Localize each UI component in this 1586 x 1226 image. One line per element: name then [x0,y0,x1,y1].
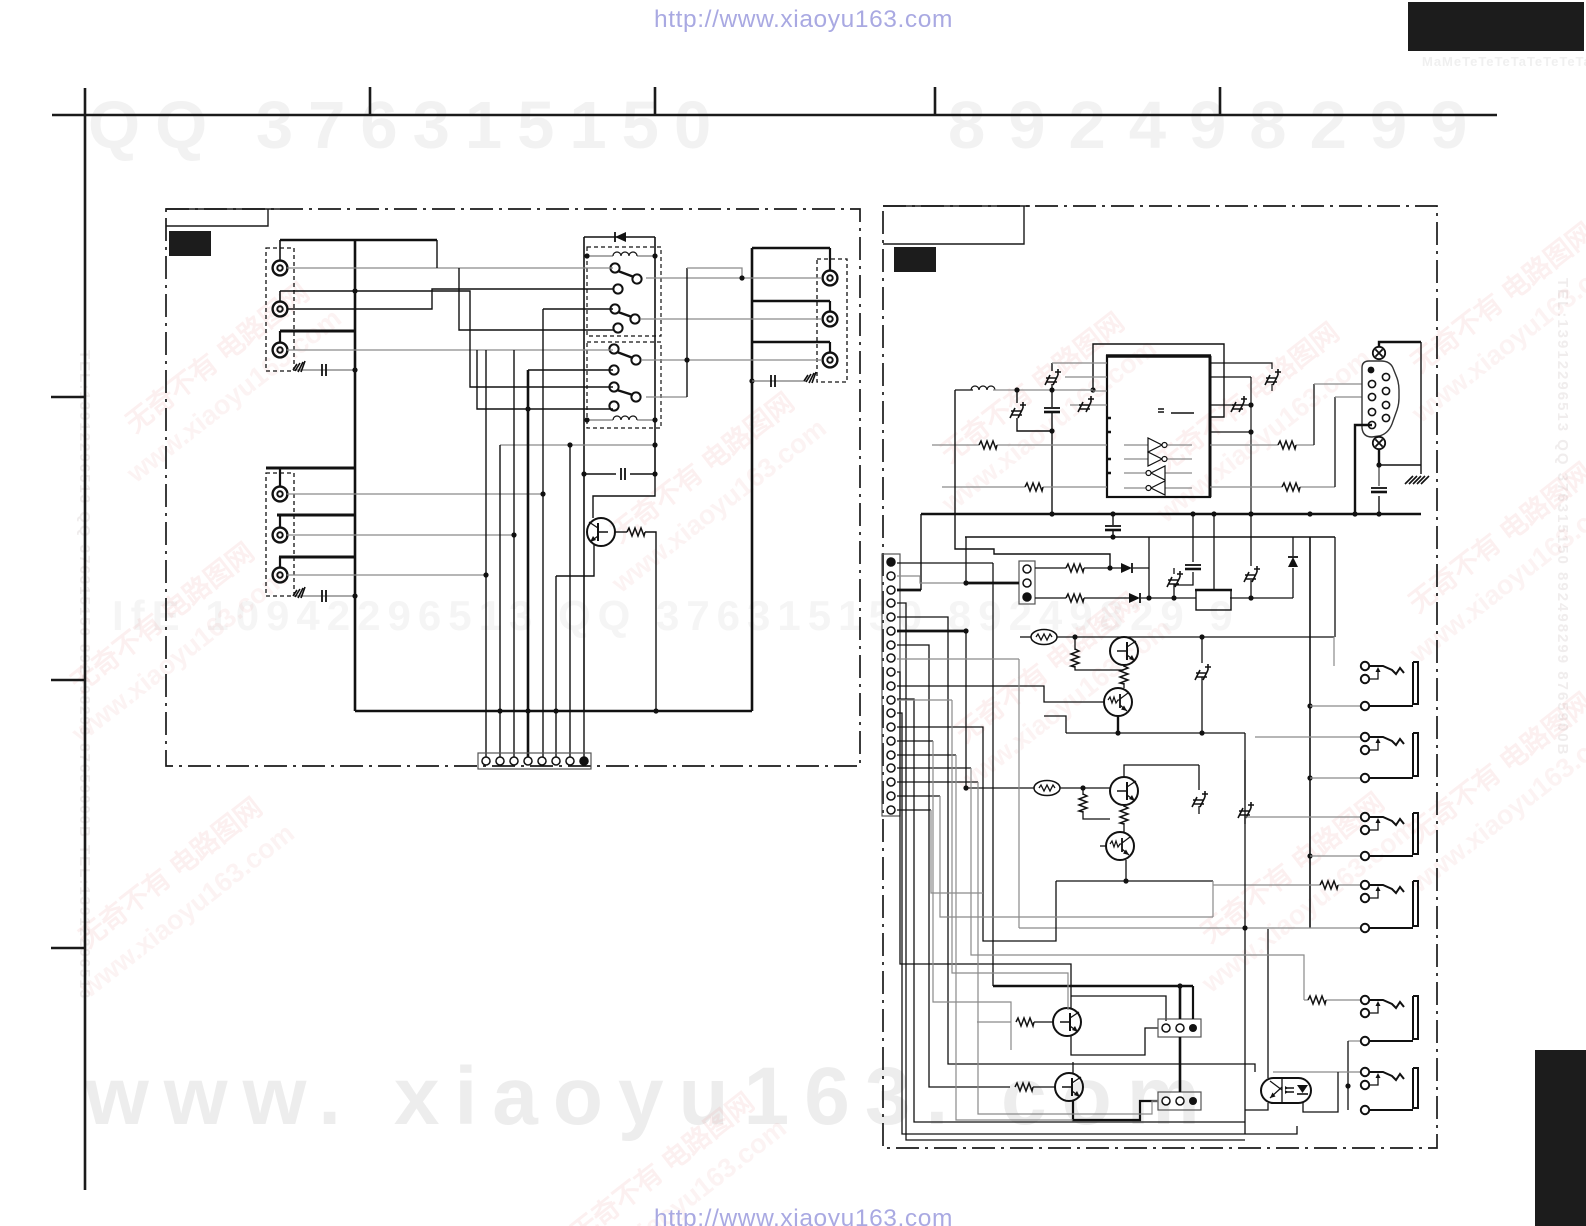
headphone jack M2 [1255,733,1418,782]
wire riser to output jacks [686,268,688,397]
thick connector feed wires [993,986,1193,1092]
right vertical bus wire [1309,537,1311,928]
svg-text:QQ 376315150: QQ 376315150 [88,88,726,163]
resistor R20 [977,1021,1011,1023]
junction dots [684,357,689,362]
left ticks [51,397,85,948]
headphone jack M3 [1245,813,1418,860]
header black box (top right) [1408,2,1584,51]
transistor Q1 [587,518,615,546]
ground + cap row group2 [294,595,355,597]
jack J3 [273,343,288,358]
opto internals [1281,1079,1283,1102]
input jack group 1 dashed box [266,248,294,371]
block border (dash-dot) [883,206,1437,1148]
DB9 connector CN10 [1362,361,1399,437]
DB9 shield wires [1355,342,1421,514]
relay dashed box 2 [587,342,661,428]
resistor R14 [1066,564,1084,572]
label box [169,231,211,256]
output jack rails [752,248,830,352]
opto wiring [1245,737,1338,1134]
border tab [883,206,1030,244]
connector CN1 pins 1-8 [482,757,588,765]
resistor R11 [1025,483,1043,491]
transistor Q4 [1110,777,1138,805]
jack J2 [273,302,288,317]
opto isolator U2 [1261,1078,1311,1103]
relay coil 2 [587,419,655,421]
block border (dash-dot) [166,209,860,766]
relay RY3 box [1196,590,1231,610]
ecap C13 [1078,396,1094,412]
diode D2 [1121,563,1132,573]
jack group 2 stubs / rails [266,468,355,567]
transistor Q1 collector path [593,474,655,518]
ecap C23 right [1201,637,1203,733]
transistor Q6 [1053,1008,1081,1036]
ecap C10 [1017,390,1052,431]
diode D3 [1129,593,1140,603]
top ticks [370,87,1220,115]
transistor Q7 [1055,1073,1083,1101]
fan junction dots [963,580,968,585]
bottom connector CN1 [478,753,591,769]
Q3 emitter down [1117,716,1119,733]
headphone jack M1 [1310,637,1418,710]
CN4 pins [1162,1024,1170,1032]
jack stubs / rails [280,240,355,342]
ecap C11 on riser [1051,363,1053,390]
pin connector strip CN2 [882,554,900,816]
jack J1 [273,261,288,276]
relay switch 4 [609,382,618,391]
thick feed wire to CN3 [966,582,1019,585]
ecap C14 [1265,369,1281,385]
Q1 base resistor R1 [615,531,627,533]
resistor R21 [1015,1083,1033,1091]
X top [1373,347,1385,359]
IC pin nubs [1108,418,1111,473]
buffer B3 [1146,466,1165,480]
label box [894,247,936,272]
relay switch 1 [610,263,619,272]
connector CN2 pins 1-19 [887,558,895,814]
3 pin connector CN5 [1158,1092,1201,1110]
wires resistors to DB9 [1314,384,1335,487]
buffer B4 [1146,481,1165,495]
3 pin connector CN4 [1158,1019,1201,1037]
left rule [84,88,87,1190]
jack J5 [273,528,288,543]
top rule [52,114,1497,117]
resistor R12 [1278,441,1296,449]
svg-text:http://www.xiaoyu163.com: http://www.xiaoyu163.com [654,6,953,33]
index black box (bottom right corner) [1535,1050,1586,1226]
ground + cap row group1 [294,369,355,371]
transistor Q3 (digital) [1104,688,1132,716]
ferrite bead FB2 row [1034,781,1060,796]
cap C21 [1185,565,1201,569]
CN5 pins [1162,1097,1170,1105]
Q1 emitter wire [556,545,594,576]
resistor R15 [1066,594,1084,602]
relay switch 3 [609,344,618,353]
vertical wires to bottom connector [486,309,584,757]
resistor rows R10/R11 [932,445,1335,487]
ecap C15 [1231,396,1247,412]
M2 feed vertical [1244,733,1246,737]
relay outputs to the right [641,278,822,397]
ferrite bead FB1 row [1031,630,1057,645]
power filter row [1174,514,1335,637]
wire bus to relay RY3 [1213,514,1215,590]
buffer B1 [1148,438,1167,452]
inductor L1 feed [955,389,973,391]
resistor R10 [979,441,997,449]
thick pin wires [897,589,921,592]
bottom edge junction dots [497,708,502,713]
IC logo mark [1158,409,1194,413]
headphone jack M6 [1273,1068,1418,1114]
DB9 pins [1368,373,1389,428]
left wire fan [897,537,1297,1140]
relay diode on top [615,232,626,242]
R16 vertical [1075,637,1124,670]
jack J8 [823,312,838,327]
bus junction dots [1049,511,1054,516]
right ground + cap row [749,378,754,383]
diode rows [1035,537,1293,598]
cap C12 [1051,390,1053,514]
jack J7 [823,271,838,286]
cap C16 under bus [1112,514,1114,537]
X bottom [1373,437,1385,449]
jack J9 [823,353,838,368]
main ground bus [921,513,1421,516]
headphone jack M4 [1019,881,1418,932]
headphone jack M5 [1304,996,1418,1110]
3-pin connector CN3 [1019,561,1035,604]
transistor Q2 [1110,637,1138,665]
rows out of IC right [1210,363,1272,514]
buffer B2 [1148,452,1167,466]
IC buffer rows [1124,445,1192,488]
jack J6 [273,568,288,583]
ecap C20 [1167,571,1183,587]
jack J4 [273,487,288,502]
relay block rails [584,237,655,711]
CN3 pins [1023,565,1031,573]
relay dashed box 1 [587,247,661,336]
border tab [166,209,280,226]
svg-text:MaMeTeTeTeTaTeTeTeTaTe: MaMeTeTeTeTaTeTeTeTaTe [1422,54,1586,69]
feed risers below bus [921,390,1335,590]
ecaps near Q4 [1198,765,1200,814]
input jack group 2 dashed box [266,473,294,596]
diode D4 [1288,557,1298,567]
Q2 emitter resistor [1123,665,1125,688]
IC U1 outer wrap wires [1093,344,1224,417]
left-to-relay signal wires [287,268,655,575]
transistor Q5 (digital) [1106,832,1134,860]
ecap C22 [1244,566,1260,582]
relay switch 2 [610,304,619,313]
cap row under relay [581,471,586,476]
main board outline (bus left / bottom / right) [355,240,752,711]
relay coil 1 [587,255,655,257]
svg-text:http://www.xiaoyu163.com: http://www.xiaoyu163.com [654,1205,953,1226]
resistor R13 [1282,483,1300,491]
IC U1 [1107,356,1210,497]
rows into IC left [1052,363,1107,405]
